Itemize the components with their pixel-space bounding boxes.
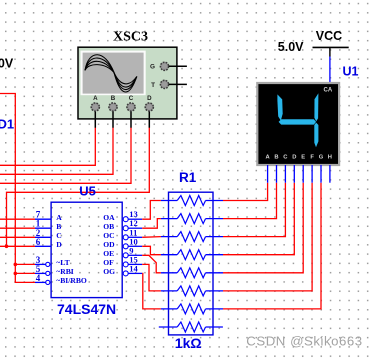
U5 pin 4 (~BI/RBO) stub: [35, 281, 46, 283]
scope terminal D stub: [148, 111, 150, 128]
U5 pin 1 (B) stub: [35, 227, 51, 229]
U1 pin G stub: [320, 165, 322, 183]
U1 segment C (bottom-right): [314, 123, 318, 148]
wire OA to R1 resistor 1: [142, 201, 161, 220]
wire branch to U5 pin 3 ~LT: [15, 263, 35, 265]
svg-text:OC: OC: [103, 231, 114, 240]
wire R1 resistor 6 to display pin F: [223, 183, 312, 291]
scope terminal D: [145, 103, 153, 111]
R1 resistor 1 left lead: [161, 200, 177, 202]
svg-text:~LT: ~LT: [56, 258, 69, 267]
R1 resistor 3 right lead: [206, 236, 223, 238]
U5 pin 4 inversion bubble: [46, 280, 50, 284]
junction dot on ~RBI branch: [14, 272, 18, 276]
U5 pin 9 stub: [128, 254, 142, 256]
scope terminal T: [160, 80, 168, 88]
svg-text:XSC3: XSC3: [113, 29, 148, 44]
svg-text:G: G: [150, 64, 155, 71]
R1 resistor 8 zigzag element: [177, 322, 205, 332]
svg-text:74LS47N: 74LS47N: [57, 301, 116, 317]
svg-text:A: A: [56, 213, 62, 222]
U5 pin 7 (A) stub: [35, 218, 51, 220]
svg-text:G: G: [319, 155, 324, 161]
svg-text:H: H: [328, 155, 332, 161]
R1 resistor 5 zigzag element: [177, 268, 205, 278]
svg-text:5.0V: 5.0V: [0, 57, 14, 71]
svg-text:R1: R1: [179, 170, 197, 185]
wire R1 resistor 5 to display pin E: [223, 183, 303, 273]
U1 segment B (top-right): [314, 93, 318, 121]
scope terminal A: [91, 103, 99, 111]
junction dot on ~LT branch: [14, 263, 18, 267]
svg-text:OD: OD: [103, 240, 115, 249]
svg-text:CSDN @Skiko663: CSDN @Skiko663: [246, 334, 362, 349]
scope terminal C stub: [130, 111, 132, 128]
R1 resistor pack box: [169, 192, 214, 335]
svg-text:D: D: [292, 155, 296, 161]
svg-text:U1: U1: [343, 64, 359, 78]
svg-text:U5: U5: [79, 183, 96, 198]
scope T stub line: [169, 83, 187, 85]
wire OE to R1 resistor 5: [142, 255, 161, 272]
U5 pin 11 (OC) inversion bubble: [123, 235, 128, 240]
R1 resistor 6 zigzag element: [177, 286, 205, 296]
R1 resistor 5 left lead: [161, 272, 177, 274]
wire R1 resistor 1 to display pin A: [223, 183, 268, 201]
wire R1 resistor 2 to display pin B: [223, 183, 277, 219]
wire net D to U5 pin 6: [0, 245, 35, 247]
R1 resistor 4 right lead: [206, 254, 223, 256]
svg-text:D: D: [56, 240, 62, 249]
U1 pin C stub: [284, 165, 286, 183]
svg-text:E: E: [301, 155, 305, 161]
wire scope channel D down to net D row: [7, 128, 150, 247]
svg-text:14: 14: [129, 263, 138, 273]
U1 pin F stub: [311, 165, 313, 183]
U5 pin 15 stub: [128, 263, 142, 265]
svg-text:OE: OE: [103, 249, 114, 258]
scope terminal B: [109, 103, 117, 111]
wire OF to R1 resistor 6: [142, 264, 161, 291]
U1 pin B stub: [276, 165, 278, 183]
wire R1 resistor 7 to display pin G: [223, 183, 321, 309]
wire scope channel B to left edge: [0, 128, 113, 175]
svg-text:F: F: [310, 155, 314, 161]
wire net B to U5 pin 1: [0, 227, 35, 229]
R1 resistor 5 right lead: [206, 272, 223, 274]
R1 resistor 3 zigzag element: [177, 232, 205, 242]
svg-text:B: B: [111, 95, 116, 102]
R1 resistor 1 zigzag element: [177, 196, 205, 206]
wire scope channel A to left edge: [0, 128, 95, 166]
U5 pin 14 (OG) inversion bubble: [123, 271, 128, 276]
svg-text:D: D: [147, 95, 152, 102]
svg-text:OG: OG: [103, 267, 115, 276]
svg-text:1kΩ: 1kΩ: [175, 335, 202, 351]
R1 resistor 2 right lead: [206, 218, 223, 220]
U5 pin 5 (~RBI) stub: [35, 272, 46, 274]
R1 resistor 2 zigzag element: [177, 214, 205, 224]
R1 resistor 8 right lead: [206, 326, 223, 328]
R1 resistor 7 right lead: [206, 308, 223, 310]
svg-text:6: 6: [36, 237, 41, 247]
svg-text:D1: D1: [0, 117, 14, 132]
wire OD to R1 resistor 4: [142, 246, 161, 254]
U5 pin 9 (OE) inversion bubble: [123, 253, 128, 258]
svg-text:VCC: VCC: [316, 29, 342, 43]
U1 display frame: [257, 83, 339, 165]
junction dot net D: [5, 245, 9, 249]
U1 pin H stub: [329, 165, 331, 183]
R1 resistor 6 right lead: [206, 290, 223, 292]
U1 pin D stub: [293, 165, 295, 183]
U5 pin 12 (OB) inversion bubble: [123, 226, 128, 231]
svg-text:5.0V: 5.0V: [278, 40, 304, 54]
svg-text:T: T: [151, 82, 155, 89]
svg-text:OF: OF: [103, 258, 114, 267]
U5 pin 11 stub: [128, 236, 142, 238]
R1 resistor 7 left lead: [161, 308, 177, 310]
U5 pin 12 stub: [128, 227, 142, 229]
U5 pin 6 (D) stub: [35, 245, 51, 247]
scope G stub line: [169, 65, 187, 67]
svg-text:~BI/RBO: ~BI/RBO: [56, 276, 87, 285]
U1 segment G (middle): [279, 119, 317, 124]
oscilloscope XSC3 body: [78, 47, 177, 119]
svg-text:C: C: [56, 231, 61, 240]
wire R1 resistor 3 to display pin C: [223, 183, 285, 237]
U5 74LS47N box: [51, 202, 122, 297]
U5 pin 10 stub: [128, 245, 142, 247]
wire net A to U5 pin 7: [0, 218, 35, 220]
svg-text:OB: OB: [103, 222, 114, 231]
R1 resistor 3 left lead: [161, 236, 177, 238]
R1 resistor 1 right lead: [206, 200, 223, 202]
U1 segment F (top-left): [277, 94, 282, 120]
VCC power symbol bar: [313, 46, 349, 48]
svg-text:A: A: [93, 95, 98, 102]
R1 resistor 4 zigzag element: [177, 250, 205, 260]
svg-text:B: B: [274, 155, 278, 161]
U1 pin A stub: [267, 165, 269, 183]
svg-text:CA: CA: [324, 88, 333, 94]
scope terminal C: [127, 103, 135, 111]
scope terminal G: [160, 62, 168, 70]
wire VCC to display CA: [329, 57, 331, 84]
U5 pin 3 (~LT) stub: [35, 263, 46, 265]
R1 resistor 8 left lead: [159, 326, 177, 328]
wire branch to U5 pin 5 ~RBI: [15, 272, 35, 274]
svg-text:B: B: [56, 222, 61, 231]
svg-text:C: C: [129, 95, 134, 102]
R1 resistor 4 left lead: [161, 254, 177, 256]
VCC symbol stub: [329, 47, 331, 56]
wire net C to U5 pin 2: [0, 236, 35, 238]
wire 5V from left edge to U5 pin 4 ~BI/RBO: [0, 94, 35, 283]
U5 pin 15 (OF) inversion bubble: [123, 262, 128, 267]
R1 resistor 6 left lead: [161, 290, 177, 292]
wire OC to R1 resistor 3: [142, 236, 161, 239]
wire OB to R1 resistor 2: [142, 219, 161, 229]
R1 resistor 7 zigzag element: [177, 304, 205, 314]
U5 pin 14 stub: [128, 272, 142, 274]
svg-text:4: 4: [36, 273, 41, 283]
scope terminal B stub: [112, 111, 114, 128]
oscilloscope screen: [81, 51, 146, 96]
svg-text:~RBI: ~RBI: [56, 267, 73, 276]
R1 resistor 2 left lead: [161, 218, 177, 220]
scope screen sine waves: [85, 55, 137, 92]
U5 pin 10 (OD) inversion bubble: [123, 244, 128, 249]
U1 pin E stub: [302, 165, 304, 183]
U5 pin 3 inversion bubble: [46, 262, 50, 266]
U5 pin 2 (C) stub: [35, 236, 51, 238]
svg-text:OA: OA: [103, 213, 115, 222]
scope terminal A stub: [94, 111, 96, 128]
U5 pin 13 (OA) inversion bubble: [123, 217, 128, 222]
wire scope channel C to left edge: [0, 128, 131, 184]
wire R1 resistor 4 to display pin D: [223, 183, 294, 255]
U5 pin 13 stub: [128, 218, 142, 220]
wire OG to R1 resistor 7: [142, 273, 161, 309]
U5 pin 5 inversion bubble: [46, 271, 50, 275]
